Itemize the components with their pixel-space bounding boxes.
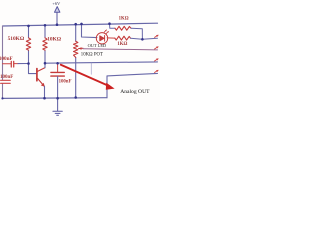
svg-text:10KΩ: 10KΩ (47, 37, 62, 43)
ground (57, 98, 59, 111)
svg-text:OUT LED: OUT LED (88, 43, 107, 48)
wire analog output line (45, 62, 158, 63)
node C3 top (56, 62, 59, 65)
wire R4 to node (131, 38, 158, 39)
wire pot wiper to right edge (83, 49, 158, 50)
wire emitter down (44, 86, 46, 98)
svg-text:100nF: 100nF (0, 75, 13, 80)
node R3 top (108, 22, 111, 25)
node left ground corner (1, 97, 3, 99)
node +6V tap (56, 23, 59, 26)
svg-text:Analog OUT: Analog OUT (120, 89, 150, 95)
node collector (44, 62, 47, 65)
svg-text:+6V: +6V (52, 1, 61, 6)
wire collector up (44, 63, 46, 67)
LED D1 (96, 30, 108, 44)
node C3 ground (56, 97, 59, 100)
wire ground bus (3, 97, 108, 100)
resistor R1 510K vertical (28, 26, 30, 64)
wire LED branch from bus (82, 24, 97, 38)
node pot top (74, 23, 77, 26)
svg-text:1KΩ: 1KΩ (117, 42, 127, 47)
node pot ground (74, 96, 77, 99)
terminal arrow ground line (155, 70, 159, 72)
terminal arrow analog line (155, 59, 159, 61)
wire LED cathode to R4 (107, 37, 115, 39)
capacitor C3 100nF (collector to ground) (57, 63, 59, 71)
resistor R4 1K horizontal (LED series) (115, 36, 131, 40)
power +6V supply symbol (56, 12, 58, 25)
capacitor C1 100nF (series input) (3, 61, 19, 67)
node dots (1, 22, 143, 99)
wire R3 right lead down to node (131, 28, 142, 39)
svg-text:100nF: 100nF (0, 56, 13, 62)
svg-text:100nF: 100nF (59, 80, 72, 85)
wire C1 to base node (18, 63, 29, 65)
terminal arrow wiper line (155, 47, 159, 49)
node LED branch top (80, 23, 83, 26)
node emitter ground (43, 97, 46, 100)
node base (27, 62, 30, 65)
resistor R3 1K horizontal (pull-up) (110, 24, 116, 29)
svg-text:510KΩ: 510KΩ (8, 36, 25, 42)
transistor Q1 NPN (29, 64, 37, 74)
node R1 top (27, 25, 30, 28)
wire top +6V bus (3, 23, 158, 26)
pot wiper arrow (79, 47, 83, 49)
wire left edge vertical (2, 26, 4, 98)
resistor R2 10K vertical (collector load) (44, 25, 46, 63)
terminal arrow digital out node (155, 35, 159, 37)
arrow analog out pointer (61, 65, 110, 87)
svg-text:1KΩ: 1KΩ (119, 17, 129, 22)
capacitor C2 100nF (shunt at left edge) (1, 80, 11, 83)
potentiometer VR1 10K (75, 24, 77, 97)
node R2 top (44, 24, 47, 27)
wire ground-to-right-edge return (107, 73, 158, 97)
node R3 R4 junction (141, 38, 144, 41)
svg-text:10KΩ POT: 10KΩ POT (81, 53, 103, 58)
wire faint stub below output line (90, 63, 92, 74)
